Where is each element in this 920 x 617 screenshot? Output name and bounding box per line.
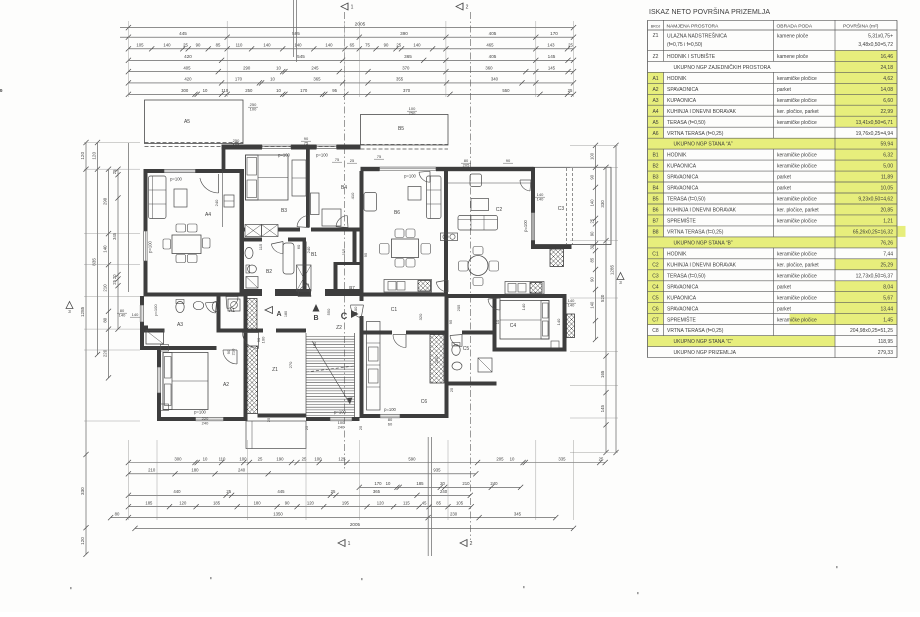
svg-text:5,00: 5,00 <box>883 164 893 170</box>
door A4 to terrace <box>200 178 219 193</box>
wall B rooms south y228 <box>240 228 246 232</box>
svg-text:VRTNA TERASA (f=0,25): VRTNA TERASA (f=0,25) <box>667 328 724 334</box>
svg-text:120: 120 <box>92 152 97 160</box>
dimension chain bottom row1 <box>128 462 605 464</box>
svg-text:118,95: 118,95 <box>878 339 893 345</box>
dimension chain bottom row3 <box>359 486 520 488</box>
svg-text:140: 140 <box>413 43 421 48</box>
svg-text:13,41x0,50=6,71: 13,41x0,50=6,71 <box>856 120 894 126</box>
svg-text:245: 245 <box>243 400 248 407</box>
svg-text:75: 75 <box>335 157 340 162</box>
table B6 small <box>408 187 421 201</box>
svg-text:210: 210 <box>231 348 236 355</box>
wall B2|B7 vertical <box>303 242 307 293</box>
svg-text:420: 420 <box>184 77 192 82</box>
hatched strip C7 spremiste <box>430 335 444 384</box>
wall B|C party vertical <box>444 171 448 296</box>
wall B6|C north with window <box>361 167 380 171</box>
svg-text:190: 190 <box>276 456 284 461</box>
wall Z south with window <box>258 414 307 418</box>
svg-text:ULAZNA NADSTREŠNICA: ULAZNA NADSTREŠNICA <box>667 33 728 40</box>
svg-text:1350: 1350 <box>273 511 283 516</box>
hatched pier C4 east <box>567 314 575 338</box>
svg-text:C3: C3 <box>558 206 565 212</box>
wall C4 south <box>496 348 567 352</box>
svg-text:65: 65 <box>350 43 355 48</box>
bed A2 <box>163 353 208 410</box>
nightstand A2 upper <box>161 345 169 352</box>
round dining table C2 with chairs <box>468 256 488 276</box>
svg-text:20: 20 <box>440 481 445 486</box>
svg-text:A1: A1 <box>652 76 658 82</box>
svg-text:204,98x0,25=51,25: 204,98x0,25=51,25 <box>850 328 893 334</box>
wall C5 west <box>445 297 449 386</box>
svg-text:100: 100 <box>590 152 595 160</box>
svg-text:1,21: 1,21 <box>883 219 893 225</box>
svg-text:keramičke pločice: keramičke pločice <box>777 153 817 159</box>
armchair C2 <box>470 174 482 187</box>
svg-text:p=100: p=100 <box>384 407 396 412</box>
terrace B5 dashed inner edge <box>361 144 449 146</box>
svg-text:A3: A3 <box>652 98 658 104</box>
svg-text:25: 25 <box>183 43 188 48</box>
svg-text:220: 220 <box>103 349 108 357</box>
window A west p=100 <box>143 231 145 261</box>
wall A west upper <box>144 169 148 231</box>
wall B6 south / C1 north <box>360 293 449 297</box>
svg-text:90: 90 <box>285 501 290 506</box>
closet B1 with X <box>297 265 312 291</box>
dimension chain top row3 small segments <box>128 48 573 50</box>
svg-text:110: 110 <box>221 88 228 93</box>
door B3 <box>297 216 308 227</box>
svg-text:B6: B6 <box>652 208 658 214</box>
svg-text:ker. pločice, parket: ker. pločice, parket <box>777 109 819 115</box>
wall A2 south with window <box>157 417 196 421</box>
svg-text:330: 330 <box>80 487 85 495</box>
svg-text:75: 75 <box>377 154 382 159</box>
svg-text:170: 170 <box>374 481 382 486</box>
svg-text:p=100: p=100 <box>194 410 206 415</box>
svg-text:410: 410 <box>350 192 355 199</box>
svg-text:590: 590 <box>408 456 416 461</box>
hob C2 pier <box>441 233 458 241</box>
svg-text:440: 440 <box>173 489 181 494</box>
svg-text:SPREMIŠTE: SPREMIŠTE <box>667 218 697 225</box>
shower A3 <box>146 331 164 345</box>
svg-text:25: 25 <box>226 489 231 494</box>
svg-text:140: 140 <box>103 245 108 253</box>
svg-text:UKUPNO NGP PRIZEMLJA: UKUPNO NGP PRIZEMLJA <box>674 350 737 356</box>
wall A|B facade connector <box>222 145 226 170</box>
svg-text:7,44: 7,44 <box>883 251 893 257</box>
svg-text:185: 185 <box>416 481 424 486</box>
svg-text:120: 120 <box>80 537 85 545</box>
window B4 north p=100 <box>317 144 337 146</box>
nightstand C4 <box>551 341 559 348</box>
svg-text:SPAVAONICA: SPAVAONICA <box>667 284 699 290</box>
svg-text:C3: C3 <box>652 273 659 279</box>
terrace A5 dashed inner edge <box>145 142 244 144</box>
svg-text:keramičke pločice: keramičke pločice <box>777 295 817 301</box>
svg-text:keramičke pločice: keramičke pločice <box>777 120 817 126</box>
svg-text:8,04: 8,04 <box>883 284 893 290</box>
svg-text:10: 10 <box>203 456 208 461</box>
svg-text:B5: B5 <box>652 197 658 203</box>
svg-text:A: A <box>276 311 281 318</box>
svg-text:UKUPNO NGP STANA “B”: UKUPNO NGP STANA “B” <box>674 240 733 246</box>
dining table B6 with chairs <box>392 239 419 258</box>
svg-text:76,26: 76,26 <box>880 240 893 246</box>
svg-text:25: 25 <box>590 218 595 223</box>
window A3 west <box>139 305 141 322</box>
window B3 north p=100 <box>262 144 291 146</box>
svg-text:C8: C8 <box>652 328 659 334</box>
svg-text:210: 210 <box>103 284 108 292</box>
dimension chain top row7 300/10/110/250/170/95/370/550 <box>128 93 573 95</box>
svg-text:100: 100 <box>239 456 247 461</box>
svg-text:140: 140 <box>163 43 171 48</box>
svg-text:B3: B3 <box>652 175 658 181</box>
svg-text:115: 115 <box>403 501 410 506</box>
svg-text:240: 240 <box>238 468 246 473</box>
dining table A4 with chairs <box>172 235 201 254</box>
duct niche A4/B3 <box>221 171 223 227</box>
terrace A5 outline <box>145 100 244 144</box>
svg-text:85: 85 <box>216 43 221 48</box>
svg-text:ISKAZ NETO POVRŠINA PRIZEMLJA: ISKAZ NETO POVRŠINA PRIZEMLJA <box>649 7 770 16</box>
svg-text:45: 45 <box>422 501 427 506</box>
section flag 1 top <box>341 3 348 10</box>
wardrobe B3 east <box>292 160 306 196</box>
wall C4 north <box>448 294 567 298</box>
svg-text:1: 1 <box>348 541 351 547</box>
svg-text:A4: A4 <box>205 212 211 218</box>
dimension chain right outer 1285 <box>615 145 617 452</box>
dimension chain top row2 445/595/390/405/170 <box>120 36 574 38</box>
window C2 east p=100 <box>530 213 532 241</box>
svg-text:445: 445 <box>179 31 187 36</box>
svg-text:SPAVAONICA: SPAVAONICA <box>667 175 699 181</box>
svg-text:390: 390 <box>400 31 408 36</box>
section line 1 dash-dot <box>343 12 345 470</box>
svg-text:25: 25 <box>358 425 363 430</box>
svg-text:245: 245 <box>311 65 319 70</box>
window A4 north p=100 <box>164 168 196 170</box>
svg-text:kamene ploče: kamene ploče <box>777 54 808 60</box>
scan fold line bottom <box>427 437 429 556</box>
svg-text:24,18: 24,18 <box>880 65 893 71</box>
svg-text:355: 355 <box>396 77 404 82</box>
wall A1|A3 vertical <box>217 297 221 333</box>
window Z2 south p=100 <box>330 416 352 418</box>
svg-text:3,48x0,50=5,72: 3,48x0,50=5,72 <box>858 42 893 48</box>
svg-text:240: 240 <box>440 489 448 494</box>
svg-text:445: 445 <box>277 489 285 494</box>
svg-text:145: 145 <box>548 65 556 70</box>
door C5 from corridor <box>450 336 462 347</box>
wall C1|C6 corridor south <box>364 331 393 335</box>
svg-text:59,94: 59,94 <box>880 142 893 148</box>
svg-text:POVRŠINA (m²): POVRŠINA (m²) <box>843 22 879 29</box>
svg-text:935: 935 <box>433 468 441 473</box>
bathroom A3 bidet <box>212 302 220 312</box>
svg-text:kamene ploče: kamene ploče <box>777 34 808 40</box>
svg-text:parket: parket <box>777 306 792 312</box>
wall C west vertical <box>360 297 364 302</box>
svg-text:HODNIK: HODNIK <box>667 76 687 82</box>
svg-text:p=100: p=100 <box>404 174 416 179</box>
dimension chain bottom row7 overall 2005 <box>135 527 574 529</box>
witness lines right <box>570 144 618 146</box>
door A2 from hallway <box>223 350 237 364</box>
svg-text:30: 30 <box>590 244 595 249</box>
svg-text:2005: 2005 <box>355 22 366 28</box>
dimension chain bottom row2 <box>128 473 475 475</box>
svg-text:parket: parket <box>777 175 792 181</box>
svg-text:95: 95 <box>448 319 453 324</box>
svg-text:2: 2 <box>466 5 469 11</box>
svg-text:25: 25 <box>112 169 117 174</box>
svg-text:550: 550 <box>326 308 331 315</box>
wall B north with windows <box>222 145 262 150</box>
svg-text:90: 90 <box>384 43 389 48</box>
stair cut dashed <box>306 366 355 372</box>
svg-text:100: 100 <box>353 306 358 313</box>
svg-text:B2: B2 <box>652 164 658 170</box>
svg-text:KUHINJA I DNEVNI BORAVAK: KUHINJA I DNEVNI BORAVAK <box>667 262 737 268</box>
svg-text:25: 25 <box>350 158 355 163</box>
svg-text:370: 370 <box>402 65 410 70</box>
svg-text:180: 180 <box>191 468 199 473</box>
svg-text:420: 420 <box>184 54 192 59</box>
svg-text:345: 345 <box>514 511 522 516</box>
svg-text:145: 145 <box>548 54 556 59</box>
svg-text:230: 230 <box>450 511 458 516</box>
svg-text:60: 60 <box>296 244 301 249</box>
svg-text:10: 10 <box>276 65 281 70</box>
svg-text:95: 95 <box>332 88 337 93</box>
armchair B6 <box>364 193 377 212</box>
svg-text:ker. pločice, parket: ker. pločice, parket <box>777 208 819 214</box>
wall B6 west <box>360 171 364 293</box>
svg-text:25: 25 <box>258 456 263 461</box>
svg-text:19,76x0,25=4,94: 19,76x0,25=4,94 <box>856 131 894 137</box>
door C6 from corridor <box>393 335 406 348</box>
wall A west lower / step <box>140 296 144 305</box>
svg-text:22,99: 22,99 <box>880 109 893 115</box>
svg-text:C: C <box>341 311 348 321</box>
svg-text:25: 25 <box>396 43 401 48</box>
svg-text:25: 25 <box>568 43 573 48</box>
svg-text:115: 115 <box>341 248 346 255</box>
svg-text:1,45: 1,45 <box>883 317 893 323</box>
bathroom C5 sink <box>452 362 462 370</box>
dimension chain top row5 405/290/10/245/370/360/145 <box>128 71 573 73</box>
svg-text:140: 140 <box>294 43 302 48</box>
svg-text:165: 165 <box>600 370 605 378</box>
svg-text:(f=0,75 i f=0,50): (f=0,75 i f=0,50) <box>667 42 703 48</box>
svg-text:185: 185 <box>145 501 153 506</box>
svg-text:300: 300 <box>174 456 182 461</box>
svg-text:120: 120 <box>179 501 187 506</box>
svg-text:90: 90 <box>590 277 595 282</box>
svg-text:C5: C5 <box>463 346 470 352</box>
svg-text:1285: 1285 <box>80 306 85 317</box>
svg-text:16,46: 16,46 <box>880 54 893 60</box>
wardrobe strip C6 <box>367 322 381 411</box>
svg-text:SPAVAONICA: SPAVAONICA <box>667 87 699 93</box>
svg-text:140: 140 <box>590 199 595 207</box>
entrance platform outside <box>246 421 306 449</box>
svg-text:2005: 2005 <box>350 522 361 527</box>
svg-text:335: 335 <box>558 456 566 461</box>
wall C5 south <box>445 382 497 386</box>
svg-text:9,23x0,50=4,62: 9,23x0,50=4,62 <box>858 197 893 203</box>
svg-text:140: 140 <box>325 43 333 48</box>
window C6 south p=100 <box>380 413 400 415</box>
svg-text:120: 120 <box>377 501 385 506</box>
svg-text:VRTNA TERASA (f=0,25): VRTNA TERASA (f=0,25) <box>667 131 724 137</box>
svg-text:170: 170 <box>235 77 243 82</box>
svg-text:KUHINJA I DNEVNI BORAVAK: KUHINJA I DNEVNI BORAVAK <box>667 208 737 214</box>
kitchen counter C2 south <box>505 282 544 295</box>
wall C6 east <box>445 386 449 419</box>
svg-text:UKUPNO NGP STANA “C”: UKUPNO NGP STANA “C” <box>674 339 734 345</box>
svg-text:keramičke pločice: keramičke pločice <box>777 98 817 104</box>
svg-text:keramičke pločice: keramičke pločice <box>777 219 817 225</box>
svg-text:405: 405 <box>183 65 191 70</box>
wall A2 west <box>157 346 161 367</box>
svg-text:p=100: p=100 <box>523 219 528 231</box>
wall B4 west lower / B7 <box>353 228 357 263</box>
svg-text:SPAVAONICA: SPAVAONICA <box>667 186 699 192</box>
svg-text:A3: A3 <box>177 322 183 328</box>
svg-text:240: 240 <box>214 199 219 206</box>
svg-text:140: 140 <box>263 43 271 48</box>
svg-text:25: 25 <box>266 417 271 422</box>
svg-text:10: 10 <box>495 319 500 324</box>
svg-text:B4: B4 <box>652 186 658 192</box>
svg-text:240: 240 <box>338 425 345 430</box>
svg-text:TERASA (f=0,50): TERASA (f=0,50) <box>667 273 706 279</box>
svg-text:10: 10 <box>276 88 281 93</box>
svg-text:B4: B4 <box>341 185 347 191</box>
wall A3 south nook <box>140 329 165 333</box>
dimension chain bottom row4 <box>128 494 470 496</box>
window A2 west <box>156 367 158 393</box>
bathroom A3 sink <box>193 301 203 309</box>
svg-text:C5: C5 <box>652 295 659 301</box>
svg-text:C1: C1 <box>652 251 659 257</box>
door B entry <box>298 284 308 297</box>
svg-text:A2: A2 <box>652 87 658 93</box>
dimension chain bottom row6 <box>111 517 556 519</box>
svg-text:90: 90 <box>590 174 595 179</box>
svg-text:parket: parket <box>777 284 792 290</box>
dimension chain left inner 25/345/20/25 <box>117 169 119 329</box>
svg-text:205: 205 <box>456 304 461 311</box>
bathroom C5 toilet <box>452 345 460 356</box>
bathroom B2 sink <box>245 247 253 258</box>
svg-text:parket: parket <box>777 87 792 93</box>
entry door A arc <box>243 333 259 349</box>
terrace B5 outline <box>361 115 449 146</box>
thin line C2 north inner <box>448 182 531 184</box>
svg-text:p=100: p=100 <box>316 153 328 158</box>
garden A6 edge line <box>128 143 130 292</box>
dimension chain bottom row5 <box>128 506 471 508</box>
svg-text:12,73x0,50=6,37: 12,73x0,50=6,37 <box>856 273 894 279</box>
section flag 3 right <box>617 273 624 280</box>
svg-text:C2: C2 <box>496 207 503 213</box>
svg-text:p=100: p=100 <box>153 304 158 316</box>
svg-text:A2: A2 <box>223 382 229 388</box>
door B4 <box>336 216 347 227</box>
svg-text:10: 10 <box>386 481 391 486</box>
terrace C3 outline <box>533 167 611 244</box>
svg-text:UKUPNO NGP ZAJEDNIČKIH PROSTOR: UKUPNO NGP ZAJEDNIČKIH PROSTORA <box>674 64 772 71</box>
bathroom B2 shower <box>246 277 258 289</box>
svg-text:25: 25 <box>568 88 573 93</box>
svg-text:240: 240 <box>202 421 209 426</box>
svg-text:465: 465 <box>486 43 494 48</box>
svg-text:90: 90 <box>196 43 201 48</box>
svg-text:C6: C6 <box>421 399 428 405</box>
svg-text:75: 75 <box>365 43 370 48</box>
svg-text:TERASA (f=0,50): TERASA (f=0,50) <box>667 197 706 203</box>
svg-text:120: 120 <box>80 152 85 160</box>
svg-text:A6: A6 <box>652 131 658 137</box>
washing machine A3 <box>228 299 240 311</box>
svg-text:405: 405 <box>489 54 497 59</box>
svg-text:SPREMIŠTE: SPREMIŠTE <box>667 316 697 323</box>
entry marker A <box>265 307 273 314</box>
svg-text:A5: A5 <box>184 119 190 125</box>
section line 2 dash-dot <box>469 12 471 540</box>
bed B3 <box>246 155 289 200</box>
svg-text:25: 25 <box>331 489 336 494</box>
svg-text:B7: B7 <box>652 219 658 225</box>
hatched pier C3 corner <box>550 249 564 267</box>
svg-text:B8: B8 <box>652 230 658 236</box>
closet B3 with X <box>245 225 262 237</box>
svg-text:keramičke pločice: keramičke pločice <box>777 273 817 279</box>
svg-text:VRTNA TERASA (f=0,25): VRTNA TERASA (f=0,25) <box>667 230 724 236</box>
wall C2 east with window <box>531 167 535 213</box>
svg-text:105: 105 <box>456 501 464 506</box>
svg-text:C1: C1 <box>391 307 398 313</box>
nightstand A2 lower <box>161 404 169 411</box>
svg-text:360: 360 <box>485 65 493 70</box>
bathroom C5 shower <box>478 358 492 372</box>
svg-text:550: 550 <box>502 88 510 93</box>
svg-text:2: 2 <box>470 541 473 547</box>
dimension chain top row6 420/170/10/365/355/340 <box>128 82 573 84</box>
door C entry <box>350 305 361 318</box>
svg-text:195: 195 <box>342 501 350 506</box>
svg-text:BROJ: BROJ <box>651 24 661 28</box>
svg-text:B7: B7 <box>349 285 355 290</box>
svg-text:p=100: p=100 <box>148 240 153 252</box>
svg-text:545: 545 <box>297 54 305 59</box>
svg-text:13,44: 13,44 <box>880 306 893 312</box>
svg-text:p=100: p=100 <box>170 177 182 182</box>
entry marker B <box>313 304 320 312</box>
kitchen counter B6 <box>384 280 432 293</box>
svg-text:14,08: 14,08 <box>880 87 893 93</box>
svg-text:keramičke pločice: keramičke pločice <box>777 317 817 323</box>
